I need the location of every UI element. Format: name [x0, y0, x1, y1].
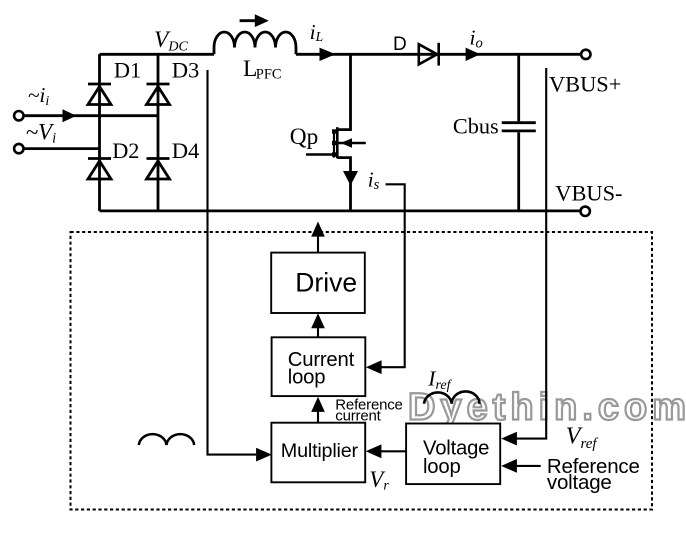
svg-text:Cbus: Cbus — [453, 114, 499, 139]
svg-text:VBUS+: VBUS+ — [549, 72, 621, 97]
svg-text:D2: D2 — [112, 138, 139, 163]
svg-text:voltage: voltage — [547, 471, 612, 494]
svg-text:VBUS-: VBUS- — [555, 180, 622, 205]
svg-text:D1: D1 — [114, 58, 141, 83]
svg-text:D4: D4 — [172, 138, 200, 163]
svg-text:Drive: Drive — [295, 268, 357, 298]
svg-text:D3: D3 — [172, 58, 200, 83]
svg-text:PFC: PFC — [256, 66, 282, 82]
svg-text:Multiplier: Multiplier — [281, 440, 359, 462]
svg-text:loop: loop — [423, 456, 461, 478]
svg-text:D: D — [393, 34, 407, 55]
svg-text:~Vi: ~Vi — [26, 120, 57, 147]
svg-text:loop: loop — [288, 367, 326, 389]
svg-text:Qp: Qp — [290, 124, 318, 150]
svg-text:current: current — [335, 407, 381, 424]
